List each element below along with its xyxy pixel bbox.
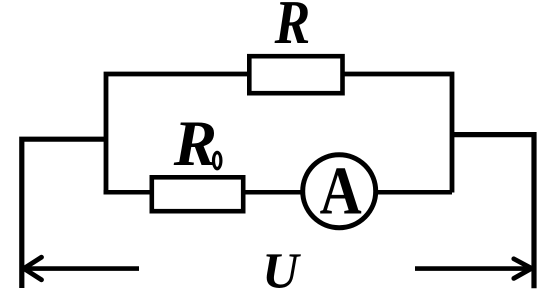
resistor R0 (152, 177, 243, 211)
ammeter A1 (303, 155, 376, 228)
svg-text:A: A (320, 152, 362, 228)
wire: right stub and right outer rail (452, 135, 534, 289)
wire: left stub and left outer rail (22, 139, 106, 288)
svg-text:U: U (262, 242, 301, 298)
resistor R (249, 56, 342, 93)
svg-text:R: R (274, 0, 310, 57)
arrow right (U dimension) (415, 266, 532, 271)
label A (ammeter) (320, 152, 362, 228)
wire: bottom branch through R0 and ammeter (104, 190, 452, 195)
label R (274, 0, 310, 57)
arrow left (U dimension) (26, 266, 139, 271)
svg-text:R: R (173, 108, 217, 180)
wire: inner parallel loop (left vertical, top wire, right vertical) (106, 74, 452, 195)
